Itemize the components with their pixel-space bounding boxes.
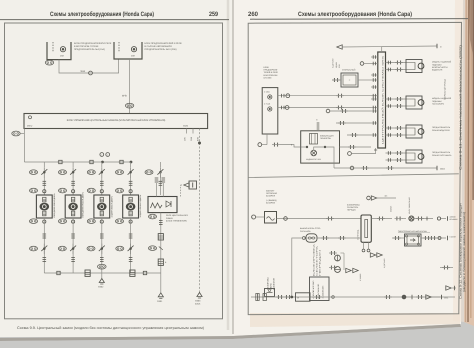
pin below actuator M3 bbox=[100, 220, 103, 223]
door lock relay K1 bbox=[148, 197, 177, 213]
connector stack F row col 3 bbox=[100, 234, 104, 238]
left caption: Схема 9.9 Центральный замок bbox=[17, 326, 204, 330]
wire row y123 bbox=[336, 121, 371, 125]
svg-text:ПРЕДОХРАНИТЕЛЬ №4 (15А): ПРЕДОХРАНИТЕЛЬ №4 (15А) bbox=[74, 48, 105, 51]
connector oval below actuator M1 bbox=[30, 219, 38, 224]
svg-text:К АКПП: К АКПП bbox=[450, 235, 457, 238]
right page number 260 bbox=[248, 11, 258, 18]
oval switch box (stop lamp switch) bbox=[300, 227, 321, 242]
pin below actuator M2 bbox=[72, 220, 75, 223]
svg-text:С 15А: С 15А bbox=[264, 91, 270, 94]
actuator M4 label bbox=[139, 194, 142, 218]
connector stack F row col 2 bbox=[71, 234, 75, 238]
svg-text:БЕЗОПАСНОСТИ: БЕЗОПАСНОСТИ bbox=[432, 66, 448, 69]
connector stack H row col 3 bbox=[100, 258, 104, 262]
fuse box FB2 bbox=[114, 42, 142, 59]
bottom row connector pair 1 bbox=[276, 295, 284, 299]
pin circle on row 63 bbox=[360, 62, 371, 66]
ignition key switch row bbox=[395, 216, 459, 222]
fuse row 1 connector bbox=[282, 94, 285, 98]
key switch vertical label bbox=[408, 196, 411, 214]
svg-text:Схемы электрооборудования (Hon: Схемы электрооборудования (Honda Capa) bbox=[50, 11, 154, 18]
pin circle 1 bbox=[100, 153, 104, 157]
SRS unit left pin y75 bbox=[371, 73, 378, 77]
svg-text:РЕМНЯ ПАССАЖИРА: РЕМНЯ ПАССАЖИРА bbox=[432, 154, 452, 157]
svg-text:БЛОК: БЛОК bbox=[195, 303, 201, 306]
right diagram border frame bbox=[248, 22, 461, 314]
inline connector block C13 bbox=[158, 259, 167, 265]
central locking control unit U1 bbox=[24, 114, 208, 129]
vertical label right of solenoid bbox=[390, 205, 393, 212]
SRS unit left pin y95.7 bbox=[371, 94, 378, 98]
pin above actuator M1 bbox=[43, 190, 46, 193]
inline connector block C15 bbox=[130, 270, 135, 276]
svg-text:СЕЛЕКТОРА: СЕЛЕКТОРА bbox=[316, 244, 319, 276]
svg-text:Схемы электрооборудования (Hon: Схемы электрооборудования (Honda Capa) bbox=[298, 11, 412, 18]
SRS unit left pin y57 bbox=[371, 55, 378, 59]
svg-text:260: 260 bbox=[248, 11, 258, 18]
actuator M1 label bbox=[53, 193, 56, 218]
wire FB1 to FB2 (W-R) bbox=[59, 59, 119, 73]
selector interlock unit box bbox=[310, 277, 335, 301]
svg-text:БАТАРЕЯ: БАТАРЕЯ bbox=[266, 195, 276, 198]
svg-text:G401: G401 bbox=[157, 300, 163, 303]
bottom row wire bbox=[251, 296, 455, 298]
svg-text:СИГНАЛОВ: СИГНАЛОВ bbox=[300, 230, 311, 233]
pin above actuator M4 bbox=[129, 190, 132, 193]
door lock actuator M1 bbox=[36, 195, 52, 218]
svg-text:ПОДУШКИ: ПОДУШКИ bbox=[432, 63, 442, 66]
svg-text:1: 1 bbox=[101, 154, 102, 157]
svg-text:БЛОКИРОВКА: БЛОКИРОВКА bbox=[313, 242, 316, 276]
top tether vertical labels bbox=[332, 58, 342, 68]
svg-text:ПОДУШКИ: ПОДУШКИ bbox=[432, 100, 442, 103]
ground G403 bbox=[195, 293, 202, 306]
cable reel box bbox=[332, 69, 371, 87]
svg-text:ЛЯТОРНАЯ: ЛЯТОРНАЯ bbox=[266, 192, 278, 195]
svg-text:В САЛОНЕ АВТОМОБИЛЯ: В САЛОНЕ АВТОМОБИЛЯ bbox=[145, 45, 173, 48]
actuator M2 label bbox=[82, 191, 85, 217]
connector oval below actuator M4 bbox=[116, 219, 124, 224]
pin below actuator M1 bbox=[43, 220, 46, 223]
battery B1 bbox=[252, 212, 277, 224]
airbag squib SQ2 bbox=[386, 96, 424, 109]
fuse wire row 2 bbox=[278, 106, 371, 110]
svg-text:ПЕРЕДАЧ: ПЕРЕДАЧ bbox=[319, 248, 322, 276]
instrument cluster box bbox=[301, 131, 340, 163]
connector oval G row col 3 bbox=[87, 246, 95, 251]
svg-text:ЗАМКА: ЗАМКА bbox=[166, 217, 173, 220]
shift solenoid valve box bbox=[405, 234, 422, 246]
vertical link wire bbox=[340, 253, 344, 270]
connector stack above actuator column 5 bbox=[159, 178, 163, 196]
inline connector J1 bbox=[57, 160, 63, 163]
right page section divider bbox=[248, 174, 459, 178]
airbag squib SQ4 bbox=[386, 150, 424, 163]
svg-text:ПРЕДНАТЯЖИТЕЛЬ: ПРЕДНАТЯЖИТЕЛЬ bbox=[432, 151, 451, 154]
wire valve row left bbox=[292, 236, 361, 297]
cluster right wire bbox=[340, 145, 372, 149]
connector oval at switch S5 bbox=[145, 170, 153, 175]
lock knob switch S6 bbox=[70, 244, 76, 255]
svg-text:ПЕРЕДАЧ: ПЕРЕДАЧ bbox=[347, 209, 357, 212]
svg-text:15A: 15A bbox=[60, 55, 64, 58]
connector stack F row col 4 bbox=[129, 234, 133, 238]
shift lock solenoid box bbox=[357, 215, 372, 242]
cluster left pin label bbox=[291, 143, 293, 146]
junction node B bbox=[130, 161, 132, 163]
fuse box FB1 label bbox=[74, 42, 112, 51]
svg-text:РЕЛЕ ЦЕНТРАЛЬНОГО: РЕЛЕ ЦЕНТРАЛЬНОГО bbox=[166, 214, 189, 217]
bottom row connector pair 2 bbox=[284, 295, 292, 299]
bottom row end terminal bbox=[442, 295, 449, 300]
svg-text:G/W: G/W bbox=[190, 137, 193, 141]
top tether wire bbox=[337, 44, 442, 52]
svg-text:СПИРАЛЬНЫЙ ПРОВОД: СПИРАЛЬНЫЙ ПРОВОД bbox=[444, 78, 447, 100]
key cylinder switch S5 bbox=[157, 162, 163, 178]
svg-text:СПИРАЛЬНЫЙ: СПИРАЛЬНЫЙ bbox=[342, 69, 356, 72]
svg-text:АККУМУ-: АККУМУ- bbox=[266, 189, 275, 192]
key cylinder switch S1 bbox=[41, 162, 47, 178]
svg-text:ПРИБОРОВ: ПРИБОРОВ bbox=[320, 137, 331, 140]
svg-text:(БЛОК УПРАВЛЕНИЯ): (БЛОК УПРАВЛЕНИЯ) bbox=[166, 219, 187, 222]
SRS unit left pin y107.5 bbox=[371, 106, 378, 110]
bottom row junction bbox=[291, 296, 293, 298]
fuse wire row 1 bbox=[278, 94, 371, 98]
door lock actuator M2 bbox=[65, 195, 81, 218]
shift lock unit label block bbox=[267, 277, 276, 290]
squib SQ2 label bbox=[432, 97, 452, 105]
connector stack above actuator column 1 bbox=[43, 178, 47, 196]
solenoid label bbox=[347, 203, 360, 211]
connector oval below actuator M2 bbox=[59, 219, 67, 224]
inline connector J2 bbox=[88, 160, 94, 163]
wire FB2 to control unit (W-B) bbox=[122, 59, 130, 114]
key cylinder switch S3 bbox=[99, 162, 105, 178]
svg-text:В МОТОРНОМ: В МОТОРНОМ bbox=[264, 74, 278, 77]
svg-text:ВОДИТЕЛЯ: ВОДИТЕЛЯ bbox=[432, 69, 443, 72]
wire actuator M4 column bbox=[130, 218, 132, 273]
svg-text:C525: C525 bbox=[183, 125, 189, 128]
connector stack below relay bbox=[159, 221, 163, 225]
SRS unit left pin y123 bbox=[371, 121, 378, 125]
connector oval above actuator M3 bbox=[87, 188, 95, 193]
door lock actuator M3 bbox=[94, 195, 110, 218]
svg-text:БЛОК ПРЕДОХРАНИТЕЛЕЙ И РЕЛЕ: БЛОК ПРЕДОХРАНИТЕЛЕЙ И РЕЛЕ bbox=[74, 42, 112, 45]
svg-text:РЕМНЯ ВОДИТЕЛЯ: РЕМНЯ ВОДИТЕЛЯ bbox=[432, 129, 450, 132]
inline connector J4 bbox=[55, 271, 61, 274]
bottom row inline box bbox=[296, 293, 311, 301]
bottom row splice bbox=[402, 295, 406, 299]
svg-text:ОТСЕКЕ: ОТСЕКЕ bbox=[264, 76, 273, 79]
connector oval pair on relay wire bbox=[149, 246, 163, 251]
bottom row connector pair 3 bbox=[314, 295, 322, 299]
inline connector J5 bbox=[142, 271, 148, 274]
SRS unit left pin y87 bbox=[371, 85, 378, 89]
svg-text:G402: G402 bbox=[98, 286, 104, 289]
svg-text:СЕЛЕКТОР: СЕЛЕКТОР bbox=[312, 279, 315, 298]
connector oval above actuator M1 bbox=[30, 188, 38, 193]
connector C4 oval on left rail bbox=[12, 131, 25, 136]
bottom row tick bbox=[411, 295, 413, 299]
door lock actuator M4 bbox=[123, 195, 139, 218]
SRS unit bottom pins bbox=[348, 148, 378, 155]
right page header title bbox=[298, 11, 412, 18]
fuse box FB3 bbox=[262, 88, 278, 134]
left diagram border frame bbox=[5, 23, 223, 319]
wire actuator M3 column bbox=[101, 218, 103, 273]
svg-text:(модели с блокировкой замка за: (модели с блокировкой замка зажигания) bbox=[462, 212, 466, 292]
shield wire (dashed) to ground bbox=[198, 129, 200, 293]
valve row wire bbox=[392, 235, 457, 240]
svg-text:ЗАДНЯЯ ПРАВАЯ ДВЕРЬ: ЗАДНЯЯ ПРАВАЯ ДВЕРЬ bbox=[139, 194, 142, 218]
svg-text:ЗАМОК: ЗАМОК bbox=[450, 216, 457, 219]
connector stack above actuator column 4 bbox=[129, 178, 133, 196]
left page header title bbox=[50, 11, 154, 18]
svg-text:ЗАДНЯЯ ЛЕВАЯ ДВЕРЬ: ЗАДНЯЯ ЛЕВАЯ ДВЕРЬ bbox=[110, 195, 113, 217]
fuse box FB2 label bbox=[145, 42, 183, 51]
junction node A bbox=[101, 161, 103, 163]
squib1 extra vertical label bbox=[444, 78, 447, 100]
ground collector wire bbox=[44, 272, 161, 274]
svg-text:(+) ВЫВОД: (+) ВЫВОД bbox=[266, 199, 277, 202]
noise condenser plug bbox=[181, 181, 197, 197]
lock knob switch S5 bbox=[41, 244, 47, 255]
left page number 259 bbox=[209, 11, 218, 18]
svg-text:G551: G551 bbox=[444, 296, 448, 299]
bottom row arrows bbox=[426, 295, 440, 299]
SRS unit left pin y80 bbox=[371, 78, 378, 82]
svg-text:ПРЕДОХРАНИ-: ПРЕДОХРАНИ- bbox=[264, 69, 279, 72]
connector oval G row col 2 bbox=[58, 246, 66, 251]
svg-text:Схема 9-11. Система пассивной: Схема 9-11. Система пассивной безопаснос… bbox=[458, 45, 462, 170]
svg-text:БЛОК: БЛОК bbox=[264, 66, 270, 69]
right caption: Схема 9-11 SRS (vertical) bbox=[458, 45, 462, 170]
fuse box FB1 bbox=[47, 42, 71, 60]
connector C1 oval below FB1 bbox=[45, 60, 53, 65]
connector stack F row col 1 bbox=[43, 234, 47, 238]
connector oval on ground drop bbox=[98, 264, 107, 269]
solenoid valve label bbox=[398, 230, 430, 233]
connector C16 oval on wire bbox=[125, 103, 133, 108]
lock knob switch S8 bbox=[128, 244, 134, 255]
bottom row terminal bars bbox=[256, 294, 267, 301]
svg-text:БЛОК ПРЕДОХРАНИТЕЛЕЙ И РЕЛЕ: БЛОК ПРЕДОХРАНИТЕЛЕЙ И РЕЛЕ bbox=[145, 42, 183, 45]
svg-text:КОМБИНАЦИЯ: КОМБИНАЦИЯ bbox=[320, 135, 334, 138]
SRS control unit U2 bbox=[378, 52, 386, 148]
svg-text:ПАССАЖИРА: ПАССАЖИРА bbox=[432, 103, 445, 106]
connector stack H row col 1 bbox=[43, 258, 47, 262]
svg-text:МОДУЛЬ НАДУВНОЙ: МОДУЛЬ НАДУВНОЙ bbox=[432, 61, 452, 64]
wire actuator M2 column bbox=[72, 218, 74, 273]
right caption line2 (vertical) bbox=[462, 212, 466, 292]
SRS unit left pin y63.5 bbox=[371, 62, 378, 66]
door switch bus wire bbox=[24, 161, 131, 163]
svg-text:ВЫКЛЮЧАТЕЛЬ СТОП-: ВЫКЛЮЧАТЕЛЬ СТОП- bbox=[300, 227, 321, 230]
connector oval above actuator M2 bbox=[59, 188, 67, 193]
bottom row connector pair 5 bbox=[416, 295, 424, 299]
inline connector J3 bbox=[118, 160, 124, 163]
connector oval above actuator M4 bbox=[116, 188, 124, 193]
svg-text:ЭЛЕКТРОМАГНИТНЫЙ КЛАПАН: ЭЛЕКТРОМАГНИТНЫЙ КЛАПАН bbox=[398, 230, 428, 233]
svg-text:ПРЕДНАТЯЖИТЕЛЬ: ПРЕДНАТЯЖИТЕЛЬ bbox=[432, 126, 451, 129]
inline connector block C14 bbox=[85, 270, 90, 276]
svg-text:ПЕРЕДНЯЯ ПРАВАЯ ДВЕРЬ: ПЕРЕДНЯЯ ПРАВАЯ ДВЕРЬ bbox=[82, 191, 85, 217]
connector oval below actuator M3 bbox=[87, 219, 95, 224]
SRS unit left pin y99 bbox=[371, 97, 378, 101]
svg-text:СЕЛЕКТОРА: СЕЛЕКТОРА bbox=[347, 206, 359, 209]
connector oval at switch S2 bbox=[59, 170, 67, 175]
right edge row y267 bbox=[440, 266, 453, 270]
svg-text:W-B: W-B bbox=[122, 94, 127, 97]
svg-text:-10-: -10- bbox=[384, 195, 388, 198]
squib SQ4 label bbox=[432, 151, 452, 157]
wire battery to solenoid bbox=[277, 217, 362, 221]
actuator M3 label bbox=[110, 195, 113, 217]
row y198 (indicator feed) bbox=[367, 195, 396, 201]
SRS unit left pin y111 bbox=[371, 109, 378, 113]
connector oval at switch S1 bbox=[30, 170, 38, 175]
key cylinder switch S2 bbox=[70, 162, 76, 178]
wire row y135 bbox=[347, 133, 371, 137]
svg-text:БЛОКИРОВКА: БЛОКИРОВКА bbox=[267, 277, 270, 290]
airbag squib SQ3 bbox=[386, 125, 424, 138]
svg-text:ИНДИКАТОР SRS: ИНДИКАТОР SRS bbox=[306, 158, 322, 161]
ground G401 bbox=[157, 293, 163, 303]
fuse row 2 connector bbox=[282, 106, 285, 110]
pin circle 2 bbox=[106, 153, 110, 157]
selector wire vertical labels bbox=[313, 242, 322, 276]
svg-text:259: 259 bbox=[209, 11, 218, 18]
fuse box FB3 bottom terminal bbox=[258, 134, 301, 147]
connector stack above actuator column 3 bbox=[100, 178, 104, 196]
wire row y111 bbox=[326, 109, 371, 113]
svg-text:ПЕРЕДНЯЯ ЛЕВАЯ ДВЕРЬ: ПЕРЕДНЯЯ ЛЕВАЯ ДВЕРЬ bbox=[53, 193, 56, 218]
control unit output pins (right) bbox=[184, 129, 200, 142]
svg-text:ЗАМОК: ЗАМОК bbox=[322, 284, 325, 299]
ground G402 bbox=[98, 273, 104, 289]
left header rule bbox=[0, 19, 229, 21]
svg-text:К ЗАМКУ: К ЗАМКУ bbox=[359, 273, 362, 281]
svg-text:МОДУЛЬ НАДУВНОЙ: МОДУЛЬ НАДУВНОЙ bbox=[432, 97, 452, 100]
svg-text:БАТАРЕИ: БАТАРЕИ bbox=[266, 201, 276, 204]
solenoid right pin wire bbox=[371, 217, 392, 221]
svg-text:Схема 9.9. Центральный замок (: Схема 9.9. Центральный замок (модели без… bbox=[17, 326, 204, 330]
svg-text:К ДАТЧИКУ: К ДАТЧИКУ bbox=[383, 258, 386, 268]
svg-text:ЦЕНТРАЛЬНЫЙ БЛОК СИСТЕМЫ SRS: ЦЕНТРАЛЬНЫЙ БЛОК СИСТЕМЫ SRS bbox=[381, 54, 384, 144]
svg-text:W-R: W-R bbox=[81, 70, 86, 73]
splice connector on W-R wire bbox=[89, 71, 93, 75]
svg-text:ТЕЛЕЙ И РЕЛЕ: ТЕЛЕЙ И РЕЛЕ bbox=[264, 71, 279, 74]
solenoid bottom pins bbox=[362, 242, 386, 268]
left rail wire from control unit bbox=[23, 129, 25, 163]
svg-text:УДАРА: УДАРА bbox=[335, 61, 338, 68]
connector oval G row col 1 bbox=[30, 246, 38, 251]
lock knob switch S7 bbox=[99, 244, 105, 255]
svg-text:MICU: MICU bbox=[27, 125, 33, 128]
connector stack H row col 4 bbox=[129, 258, 133, 262]
connector oval below relay K1 bbox=[149, 214, 157, 219]
SRS bottom row bbox=[334, 163, 446, 170]
connector stack above actuator column 2 bbox=[71, 178, 75, 196]
svg-text:БЛОКИРОВКА: БЛОКИРОВКА bbox=[347, 203, 360, 206]
svg-text:КЛЮЧ ЗАЖИГАНИЯ: КЛЮЧ ЗАЖИГАНИЯ bbox=[408, 196, 411, 214]
connector oval at switch S4 bbox=[116, 170, 124, 175]
svg-text:ПРЕДОХРАНИТЕЛЬ №13 (20А): ПРЕДОХРАНИТЕЛЬ №13 (20А) bbox=[145, 48, 177, 51]
relay K1 label bbox=[166, 214, 189, 222]
squib SQ1 label bbox=[432, 61, 452, 72]
squib SQ3 label bbox=[432, 126, 451, 132]
svg-text:G/R: G/R bbox=[184, 137, 187, 141]
SRS unit left pin y135 bbox=[371, 133, 378, 137]
relay K1 coil wires bbox=[155, 172, 165, 197]
connector oval at switch S3 bbox=[87, 170, 95, 175]
svg-text:КРЫШКИ: КРЫШКИ bbox=[450, 218, 459, 221]
key cylinder switch S4 bbox=[128, 162, 134, 178]
pin above actuator M2 bbox=[72, 190, 75, 193]
right caption: Схема 9-12 блокировка передач line1 (vertical) bbox=[459, 202, 463, 299]
right header rule bbox=[250, 18, 468, 21]
airbag squib SQ1 bbox=[386, 60, 424, 73]
engine fuse box label (right page) bbox=[264, 66, 279, 79]
park switch box bbox=[265, 289, 275, 297]
cluster top pin bbox=[316, 118, 319, 130]
wire actuator M1 column bbox=[43, 218, 45, 273]
connector stack H row col 2 bbox=[71, 258, 75, 262]
right edge row y288 bbox=[446, 286, 456, 290]
pin above actuator M3 bbox=[100, 190, 103, 193]
svg-text:С 7,5А: С 7,5А bbox=[264, 102, 271, 105]
svg-text:В МОТОРНОМ ОТСЕКЕ: В МОТОРНОМ ОТСЕКЕ bbox=[74, 45, 99, 48]
inline connector block C12 bbox=[158, 234, 163, 240]
middle cluster diode D1 bbox=[329, 251, 340, 261]
svg-text:20A: 20A bbox=[131, 54, 135, 57]
connector oval G row col 4 bbox=[116, 246, 124, 251]
middle cluster diode D2 bbox=[329, 266, 362, 282]
svg-text:≋: ≋ bbox=[297, 297, 299, 300]
pin below actuator M4 bbox=[129, 220, 132, 223]
svg-text:К ДАТЧИКУ: К ДАТЧИКУ bbox=[332, 58, 335, 68]
svg-text:2: 2 bbox=[107, 154, 108, 157]
svg-text:G403: G403 bbox=[195, 300, 201, 303]
svg-text:ЗАМОК: ЗАМОК bbox=[390, 205, 393, 212]
battery label bbox=[266, 189, 278, 204]
bottom row connector pair 4 bbox=[384, 295, 392, 299]
wire relay K1 to ground bbox=[160, 213, 162, 293]
